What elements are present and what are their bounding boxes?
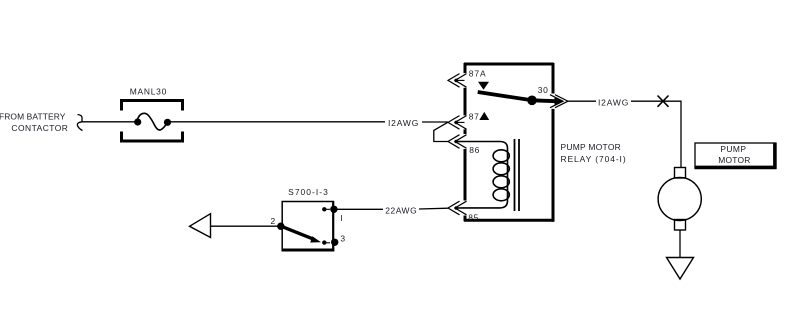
relay pin 30 connector chevron [550,95,568,108]
relay U1 box outline [464,63,554,222]
wire arrow to switch pin 2 [211,225,282,227]
fuse MANL30 element [134,113,171,130]
fuse MANL30 top bracket [122,101,183,111]
relay coil loop 1 [493,150,509,162]
svg-text:I2AWG: I2AWG [598,97,629,107]
svg-text:S700-I-3: S700-I-3 [288,187,329,197]
node: FROM BATTERY CONTACTOR label [0,112,68,133]
relay switch arm [478,92,563,105]
switch pin 2 dot [277,223,284,230]
svg-text:I2AWG: I2AWG [388,118,419,128]
switch pin 1 dot [330,206,337,213]
relay coil loop 4 [493,189,509,201]
fuse MANL30 bottom bracket [122,132,183,142]
relay pin 87 connector chevron [448,116,467,130]
switch pin 3 contact dot [322,240,330,244]
svg-text:FROM BATTERY: FROM BATTERY [0,112,66,122]
svg-text:86: 86 [469,145,480,155]
svg-text:87A: 87A [469,69,487,79]
relay name label PUMP MOTOR RELAY (704-I) [561,142,627,164]
svg-text:PUMP MOTOR: PUMP MOTOR [561,142,622,152]
svg-text:2: 2 [270,216,275,226]
svg-text:MANL30: MANL30 [130,87,167,97]
relay coil loop 2 [493,163,509,175]
ground triangle [667,258,694,280]
relay pin 85 connector chevron [448,201,467,215]
relay coil loop 3 [493,176,509,188]
svg-text:RELAY (704-I): RELAY (704-I) [561,154,627,164]
switch pin 1 contact dot [322,207,330,211]
svg-text:MOTOR: MOTOR [718,155,750,165]
relay pin 87A connector chevron [448,74,467,88]
wire 12AWG to relay pin 87 [422,121,448,123]
wire motor to ground [679,230,681,258]
svg-text:22AWG: 22AWG [385,206,417,216]
relay 87A fixed contact triangle [478,82,489,90]
switch S700-I-3 box [282,201,335,251]
svg-text:PUMP: PUMP [720,144,746,154]
svg-text:87: 87 [469,111,480,121]
wire pin 30 to 12AWG label [568,100,596,102]
off-page break squiggle [77,115,82,131]
wire branch pin 87 to pin 86 [434,122,449,141]
motor M1 terminal square top [675,168,686,179]
wire from battery contactor to fuse [82,121,135,123]
wire fuse to 12AWG label [171,121,385,123]
relay 87 fixed contact triangle [479,112,489,120]
relay coil outline [458,142,508,209]
svg-text:30: 30 [538,85,549,95]
relay core bars [515,139,520,211]
switch pin 3 dot [331,239,338,246]
relay pin 86 connector chevron [448,135,467,149]
wire 12AWG to corner [631,101,681,167]
off-page arrow to ground (left) [190,214,211,238]
svg-text:85: 85 [468,212,479,222]
splice X [658,96,669,107]
svg-text:3: 3 [340,234,345,244]
pump motor box label [718,144,750,165]
switch arm with arrow [281,226,321,242]
svg-text:I: I [340,213,342,223]
motor M1 terminal square bottom [675,220,686,231]
wire switch pin 1 to 22AWG label [334,208,383,210]
svg-text:CONTACTOR: CONTACTOR [11,123,68,133]
pump motor name box [695,143,777,170]
wire 22AWG to relay pin 85 [419,207,448,210]
motor M1 body circle [658,177,701,220]
